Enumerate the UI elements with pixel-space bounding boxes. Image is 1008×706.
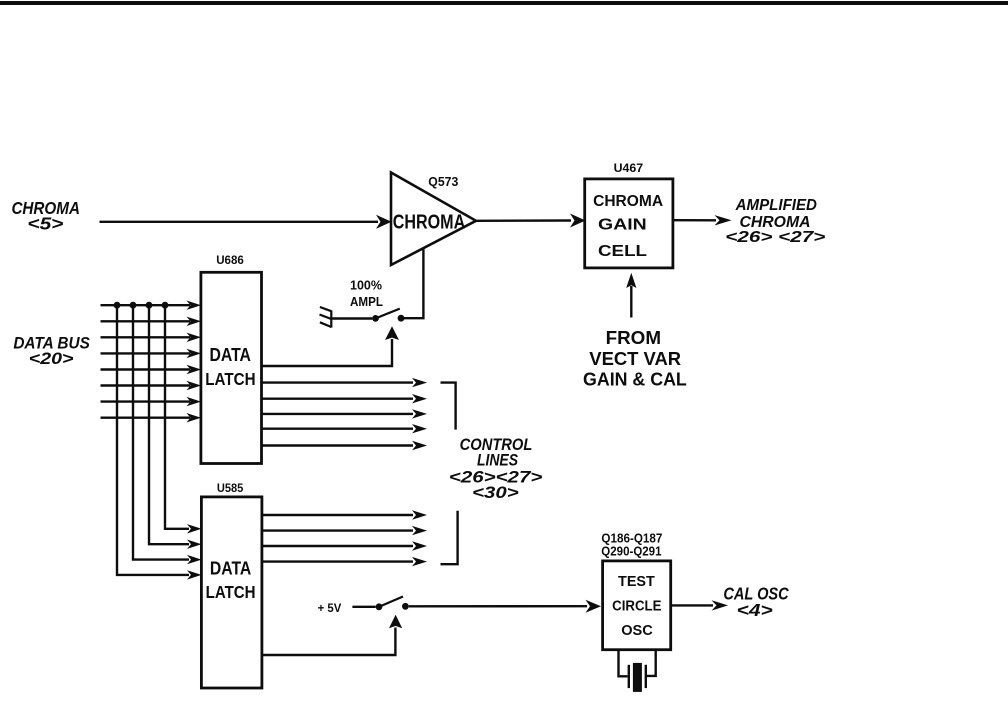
wire data bus line 8	[101, 413, 202, 422]
IC U585 data latch box	[201, 497, 262, 688]
svg-text:U686: U686	[216, 253, 244, 267]
svg-text:AMPLIFIED: AMPLIFIED	[735, 197, 818, 214]
svg-text:CELL: CELL	[598, 243, 647, 260]
switch 100% AMPL	[372, 309, 404, 322]
junction dot bus tap 4	[162, 302, 169, 309]
wire data bus line 1	[101, 301, 202, 310]
svg-text:AMPL: AMPL	[350, 295, 383, 309]
switch cal osc enable	[376, 597, 409, 611]
wire switch to Q573 bottom	[404, 248, 423, 318]
svg-text:Q573: Q573	[428, 174, 458, 189]
IC U467 chroma gain cell box	[585, 179, 673, 268]
label CHROMA GAIN CELL	[593, 193, 663, 260]
IC U686 data latch box	[201, 272, 262, 463]
svg-text:<5>: <5>	[27, 214, 63, 234]
svg-text:OSC: OSC	[621, 622, 653, 639]
oscillator test circle osc box	[603, 561, 671, 650]
node CHROMA 5 input label	[11, 198, 80, 234]
svg-text:LATCH: LATCH	[205, 369, 255, 389]
svg-text:+ 5V: + 5V	[318, 601, 342, 615]
wire crystal left lead	[619, 650, 628, 676]
wire data bus line 3	[101, 333, 202, 342]
svg-text:CHROMA: CHROMA	[593, 193, 663, 210]
svg-text:GAIN & CAL: GAIN & CAL	[583, 368, 687, 389]
wire U467 output	[673, 215, 732, 225]
wire +5V feed	[352, 606, 375, 608]
ground chassis symbol	[320, 307, 332, 328]
wire control line 2	[262, 394, 428, 403]
crystal resonator	[629, 663, 646, 692]
wire U585 bottom output to +5V switch	[262, 615, 402, 655]
label Q186-Q187 Q290-Q291	[601, 531, 662, 559]
bracket control lines bottom	[441, 511, 458, 564]
wire bus vertical 2 to U585 input 3	[133, 305, 202, 564]
label DATA LATCH U686	[205, 345, 255, 389]
wire bus vertical 1 to U585 input 4	[117, 305, 202, 579]
wire data bus line 4	[101, 349, 202, 358]
svg-text:TEST: TEST	[618, 573, 655, 590]
svg-text:U585: U585	[217, 481, 244, 495]
wire bus vertical 4 to U585 input 1	[165, 305, 202, 533]
wire U585 control output 4	[262, 557, 427, 566]
node DATA BUS 20 label	[13, 334, 90, 368]
wire data bus line 6	[101, 381, 202, 390]
node AMPLIFIED CHROMA 26 27 output label	[725, 197, 825, 246]
svg-text:100%: 100%	[350, 279, 382, 293]
svg-text:CIRCLE: CIRCLE	[612, 598, 661, 615]
wire control line 5	[262, 441, 428, 450]
wire osc output	[671, 600, 728, 610]
wire switch to test circle osc	[409, 600, 601, 613]
wire control line 4	[262, 424, 428, 433]
wire data bus line 7	[101, 397, 202, 406]
svg-text:<20>: <20>	[29, 350, 74, 368]
wire data bus line 2	[101, 317, 202, 326]
svg-text:FROM: FROM	[606, 327, 661, 348]
junction dot bus tap 2	[130, 302, 137, 309]
bracket control lines top	[441, 383, 456, 430]
wire crystal right lead	[647, 650, 656, 676]
svg-text:DATA: DATA	[209, 345, 251, 365]
transistor amplifier Q573 triangle	[391, 173, 476, 266]
wire bus vertical 3 to U585 input 2	[149, 305, 202, 549]
wire U686 output to 100% AMPL switch	[262, 326, 400, 366]
svg-text:<30>: <30>	[472, 484, 519, 502]
node CAL OSC 4 output label	[723, 583, 789, 620]
wire control line 3	[262, 409, 428, 418]
svg-text:LATCH: LATCH	[206, 582, 256, 602]
junction dot bus tap 3	[146, 302, 153, 309]
label 100% AMPL	[350, 279, 383, 310]
svg-text:DATA: DATA	[210, 558, 251, 578]
wire data bus line 5	[101, 365, 202, 374]
svg-text:<26> <27>: <26> <27>	[725, 229, 825, 246]
wire U585 control output 2	[262, 526, 427, 535]
label FROM VECT VAR GAIN CAL	[583, 327, 687, 389]
svg-text:LINES: LINES	[477, 452, 518, 470]
svg-text:Q290-Q291: Q290-Q291	[601, 544, 661, 559]
wire U585 control output 1	[262, 510, 427, 519]
wire from vect var gain and cal into U467	[626, 273, 636, 318]
svg-text:VECT VAR: VECT VAR	[589, 348, 681, 369]
label CONTROL LINES 26 27 30	[449, 436, 543, 502]
label TEST CIRCLE OSC	[612, 573, 661, 639]
label DATA LATCH U585	[206, 558, 256, 602]
wire Q573 output to U467	[476, 214, 586, 228]
wire U585 control output 3	[262, 541, 427, 550]
wire chroma input to Q573	[100, 215, 392, 229]
svg-text:GAIN: GAIN	[598, 216, 647, 233]
junction dot bus tap 1	[114, 302, 121, 309]
svg-text:U467: U467	[614, 161, 644, 175]
svg-text:<4>: <4>	[737, 600, 773, 620]
svg-text:CHROMA: CHROMA	[393, 211, 466, 233]
wire control line 1	[262, 378, 428, 387]
wire ground to switch	[331, 317, 372, 319]
